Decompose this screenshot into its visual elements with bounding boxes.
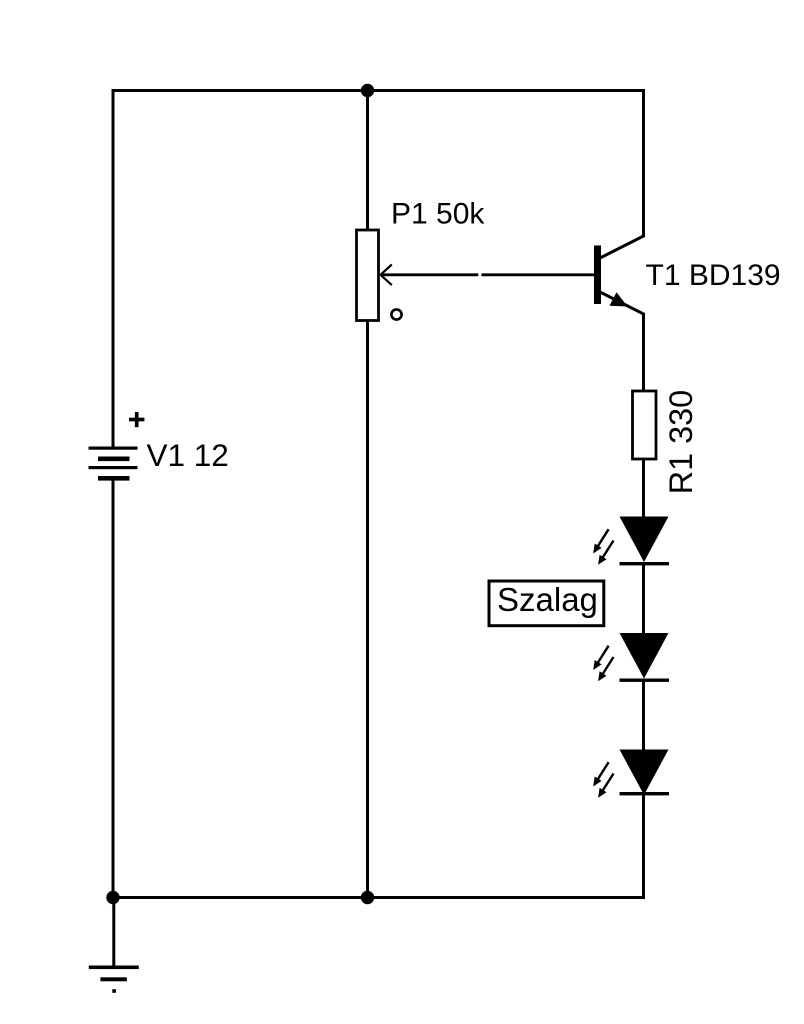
- ground bar 1: [89, 966, 139, 970]
- battery plus sign: [129, 412, 144, 427]
- resistor R1 body: [633, 391, 657, 459]
- LED D1 light arrow 1: [593, 529, 608, 553]
- svg-text:R1 330: R1 330: [663, 390, 699, 494]
- svg-text:V1 12: V1 12: [147, 437, 229, 473]
- junction dot bottom middle: [361, 891, 374, 904]
- potentiometer P1 terminal circle: [391, 309, 401, 319]
- battery V1 plate 2 short thick (-): [98, 457, 130, 462]
- svg-text:T1 BD139: T1 BD139: [646, 259, 781, 292]
- battery V1 plate 1 long (+): [89, 447, 138, 450]
- wire R1 to LED D1: [642, 459, 645, 518]
- LED D1 light arrow 2: [598, 541, 613, 565]
- LED D2 light arrow 2: [598, 657, 613, 681]
- wire right vertical collector (top rail to T1): [642, 89, 645, 236]
- battery V1 plate 3 long (+): [89, 466, 138, 469]
- LED D2 light arrow 1: [593, 646, 608, 670]
- LED D1 cathode bar: [620, 562, 670, 565]
- wire bottom horizontal: [113, 896, 645, 899]
- ground bar 2: [100, 977, 127, 981]
- junction dot top (middle wire / top rail): [361, 84, 374, 97]
- transistor T1 emitter diagonal: [599, 292, 645, 315]
- wire left vertical upper (battery + to top rail): [112, 89, 115, 448]
- battery V1 plate 4 short thick (-): [98, 476, 130, 481]
- ground bar 3 (dot): [112, 989, 116, 993]
- wire emitter to R1: [642, 313, 645, 391]
- wire LED D1 to LED D2: [642, 563, 645, 635]
- potentiometer P1 wiper arrow: [381, 265, 392, 286]
- wire LED D2 to LED D3: [642, 679, 645, 751]
- LED D3 cathode bar: [620, 792, 670, 795]
- svg-text:P1 50k: P1 50k: [391, 198, 485, 231]
- wire left vertical lower (battery - to bottom rail): [112, 480, 115, 899]
- wire top horizontal: [112, 89, 646, 92]
- Szalag label box: [489, 581, 604, 626]
- wire base (T1 base to P1 wiper, two segments with gap): [381, 273, 478, 276]
- junction dot bottom left (ground node): [106, 891, 119, 904]
- wire middle vertical lower (P1 to bottom rail): [366, 320, 369, 899]
- transistor T1 collector diagonal: [599, 236, 645, 259]
- LED D3 triangle: [620, 750, 669, 796]
- LED D2 cathode bar: [620, 679, 670, 682]
- LED D1 triangle: [620, 517, 669, 563]
- wire LED D3 to bottom rail: [642, 793, 645, 899]
- svg-text:Szalag: Szalag: [497, 581, 598, 618]
- transistor T1 emitter arrowhead: [610, 292, 628, 306]
- LED D3 light arrow 1: [593, 762, 608, 786]
- wire ground stem: [112, 898, 115, 968]
- potentiometer P1 body: [357, 230, 379, 321]
- LED D2 triangle: [620, 633, 669, 679]
- wire middle vertical upper (top rail to P1): [366, 89, 369, 230]
- LED D3 light arrow 2: [598, 774, 613, 798]
- transistor T1 base bar: [594, 246, 601, 305]
